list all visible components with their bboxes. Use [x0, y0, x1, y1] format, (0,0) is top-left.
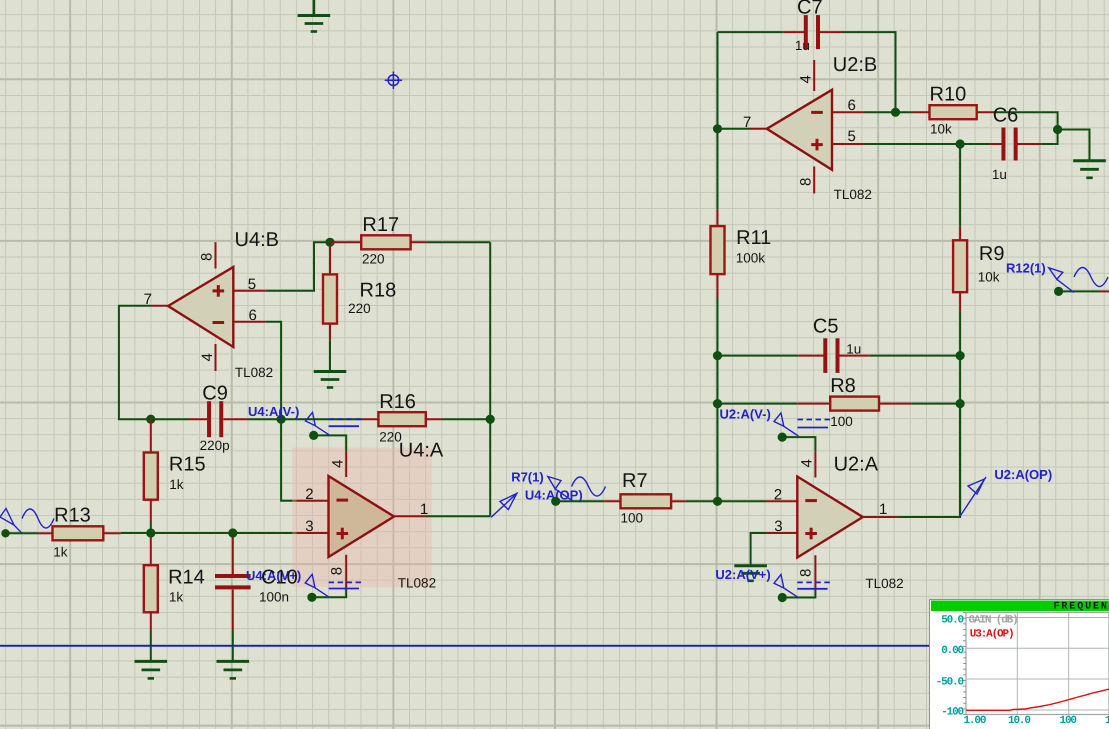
- label R17: [362, 214, 399, 236]
- op-amp U4:A pin3 stub: [296, 532, 328, 534]
- label R10: [930, 84, 967, 106]
- svg-text:FREQUENCY RESPONSE: FREQUENCY RESPONSE: [1054, 602, 1109, 613]
- node U2:A V- wire: [778, 433, 816, 452]
- pin number 3 (U2:A): [774, 518, 782, 535]
- wire U4:B pin7 output to C9 row: [119, 306, 189, 419]
- svg-text:C5: C5: [813, 316, 839, 338]
- op-amp U4:A pin2 stub: [296, 500, 328, 502]
- node U4:A V+ wire: [307, 588, 346, 602]
- svg-text:U3:A(OP): U3:A(OP): [970, 629, 1014, 641]
- probe arrow U2:A(OP): [960, 477, 986, 517]
- junction node R14/R15: [146, 528, 155, 537]
- label TL082 (U4:A): [398, 576, 436, 591]
- svg-text:8: 8: [798, 178, 815, 186]
- svg-text:C10: C10: [261, 567, 298, 589]
- net label R12(1): [1006, 261, 1046, 276]
- svg-text:U4:B: U4:B: [235, 229, 279, 251]
- pin number 1 (U2:A): [879, 501, 887, 518]
- op-amp U2:B pin8 stub: [813, 167, 815, 194]
- ground (C6): [1073, 161, 1106, 178]
- svg-text:TL082: TL082: [865, 576, 903, 591]
- value 10k (R9): [978, 269, 1000, 284]
- label R16: [379, 391, 416, 413]
- pin number 3 (U4:A): [305, 518, 313, 535]
- wire U2:B pin5 to C6: [865, 143, 990, 145]
- op-amp U4:B pin5 stub: [233, 290, 265, 292]
- svg-text:R13: R13: [54, 505, 91, 527]
- value 1k (R15): [169, 477, 184, 492]
- label TL082 (U2:A): [865, 576, 903, 591]
- value 1k (R13): [53, 545, 68, 560]
- svg-text:R7: R7: [622, 470, 648, 492]
- svg-text:2: 2: [774, 487, 782, 504]
- resistor R16: [362, 412, 442, 426]
- sheet border (blue line): [0, 645, 930, 647]
- label R15: [169, 454, 206, 476]
- svg-text:50.0: 50.0: [941, 615, 963, 627]
- wire U2:B pin7 rail: [717, 32, 719, 210]
- resistor R8: [718, 397, 961, 411]
- svg-text:1.00: 1.00: [964, 715, 986, 727]
- junction node U2:B pin7: [713, 124, 722, 133]
- probe arrow U4:A(OP): [491, 493, 517, 517]
- power pin dash (U2:A V-): [798, 420, 831, 428]
- svg-text:5: 5: [248, 276, 256, 293]
- value 100n (C10): [259, 590, 289, 605]
- generator sine R12(1): [1074, 268, 1108, 287]
- junction node C10: [228, 528, 237, 537]
- op-amp U2:B pin5 stub: [832, 143, 865, 145]
- junction node R9 top: [956, 139, 965, 148]
- pin number 8 (U2:A): [798, 569, 815, 577]
- op-amp U2:A pin4 stub: [814, 452, 816, 478]
- value 100 (R8): [830, 414, 853, 429]
- label R11: [736, 227, 771, 249]
- svg-text:8: 8: [798, 569, 815, 577]
- wire C6 node down: [1041, 130, 1057, 145]
- op-amp U4:A pin8 stub: [345, 555, 347, 588]
- label U4:A: [399, 440, 444, 462]
- label C5: [813, 316, 839, 338]
- junction node R17/R18: [325, 238, 334, 247]
- op-amp U2:B: [767, 90, 832, 170]
- op-amp U4:B pin4 stub: [215, 344, 217, 371]
- resistor R14: [144, 537, 158, 661]
- junction node R8 right: [956, 399, 965, 408]
- value 100k (R11): [736, 251, 766, 266]
- op-amp U4:B minus mark: [213, 321, 225, 324]
- svg-text:7: 7: [743, 114, 751, 131]
- op-amp U4:A pin4 stub: [345, 452, 347, 477]
- op-amp U2:A pin3 stub: [766, 532, 797, 534]
- junction node C9/pin2 rail: [277, 415, 286, 424]
- svg-text:220p: 220p: [200, 438, 230, 453]
- value 1u (C7): [795, 38, 810, 53]
- svg-text:C9: C9: [202, 382, 228, 404]
- frequency response chart window: [930, 600, 1109, 729]
- op-amp U4:B pin7 stub: [151, 305, 169, 307]
- net label U4:A(V-): [248, 404, 299, 419]
- net label U2:A(V-): [720, 407, 771, 422]
- svg-text:3: 3: [305, 518, 313, 535]
- svg-text:R10: R10: [930, 84, 967, 106]
- capacitor C9: [189, 401, 249, 437]
- op-amp U2:B pin7 stub: [750, 128, 768, 130]
- net pointer arrow (U2:A V-): [774, 413, 798, 436]
- net label R7(1): [511, 470, 544, 485]
- svg-text:R11: R11: [736, 227, 771, 249]
- wire U2:B pin6 to R10: [865, 111, 914, 113]
- label R9: [979, 243, 1005, 265]
- pin number 6 (U4:B): [249, 307, 257, 324]
- junction node R15 top: [146, 415, 155, 424]
- net label U2:A(OP): [994, 467, 1052, 482]
- net pointer arrow (U4:A V-): [306, 412, 331, 435]
- pin number 4 (U4:B): [199, 353, 216, 361]
- wire U4:A output: [425, 515, 490, 517]
- svg-text:10.0: 10.0: [1008, 715, 1030, 727]
- junction node U2 input rail: [713, 497, 722, 506]
- op-amp U2:A plus mark: [805, 528, 817, 540]
- pin number 6 (U2:B): [848, 97, 856, 114]
- op-amp U2:A: [797, 477, 863, 558]
- op-amp U2:B plus mark: [811, 139, 823, 151]
- net pointer arrow (U2:A V+): [774, 575, 798, 598]
- svg-text:1u: 1u: [795, 38, 810, 53]
- junction node feedback rail/R16: [486, 415, 495, 424]
- generator arrow R12(1): [1049, 268, 1074, 293]
- pin number 8 (U4:B): [199, 253, 216, 261]
- junction node R7 left: [551, 497, 560, 506]
- op-amp U2:A pin2 stub: [766, 500, 797, 502]
- power pin dash (U4:A V-): [329, 419, 362, 426]
- pin number 2 (U4:A): [305, 486, 313, 503]
- ground (U2:A pin3): [734, 566, 767, 581]
- resistor R13: [38, 526, 121, 540]
- pin number 7 (U4:B): [144, 291, 152, 308]
- wire U2:B pin7 link: [718, 128, 751, 130]
- op-amp U4:B plus mark: [213, 285, 225, 297]
- svg-text:10k: 10k: [930, 121, 952, 136]
- wire to R12: [1059, 290, 1109, 292]
- wire R9 down to output rail: [959, 311, 961, 517]
- op-amp U4:B pin8 stub: [215, 242, 217, 268]
- pin number 7 (U2:B): [743, 114, 751, 131]
- net label U2:A(V+): [715, 567, 770, 582]
- junction node C5 right: [956, 351, 965, 360]
- svg-text:TL082: TL082: [398, 576, 436, 591]
- op-amp U4:A plus mark: [337, 528, 349, 540]
- svg-text:220: 220: [348, 301, 371, 316]
- pin number 2 (U2:A): [774, 487, 782, 504]
- svg-text:1: 1: [879, 501, 887, 518]
- wire feedback rail (vertical): [489, 242, 491, 516]
- net pointer arrow (U4:A V+): [305, 574, 329, 597]
- wire C9 to R16: [249, 418, 363, 420]
- svg-text:1k: 1k: [169, 590, 184, 605]
- svg-text:-50.0: -50.0: [936, 677, 964, 689]
- value 220p (C9): [200, 438, 230, 453]
- svg-text:1: 1: [420, 501, 428, 518]
- capacitor C7: [718, 15, 843, 49]
- svg-text:R7(1): R7(1): [511, 470, 544, 485]
- svg-text:1k: 1k: [53, 545, 68, 560]
- value 100 (R7): [621, 510, 644, 525]
- label C6: [993, 105, 1019, 127]
- svg-text:100n: 100n: [259, 590, 289, 605]
- svg-text:3: 3: [774, 518, 782, 535]
- wire U4:B pin6 down to U4:A pin2: [266, 322, 297, 501]
- wire C6 node to ground: [1058, 130, 1090, 161]
- node U2:A V+ wire: [778, 588, 816, 602]
- resistor R10: [913, 105, 993, 119]
- op-amp U2:B pin6 stub: [832, 111, 865, 113]
- op-amp U2:A minus mark: [805, 499, 817, 502]
- ground (C10): [217, 661, 250, 678]
- svg-text:220: 220: [362, 252, 385, 267]
- power pin dash (U2:A V+): [797, 582, 830, 588]
- op-amp U4:A pin1 stub: [394, 515, 426, 517]
- op-amp U4:A: [329, 476, 395, 557]
- op-amp U2:A pin1 stub: [862, 516, 897, 518]
- junction node R12 wire: [1054, 287, 1063, 296]
- net label U4:A(OP): [525, 488, 583, 503]
- svg-text:GAIN (dB): GAIN (dB): [969, 615, 1018, 627]
- svg-text:R18: R18: [360, 280, 397, 302]
- input terminal dot: [1, 529, 9, 537]
- svg-text:TL082: TL082: [834, 187, 872, 202]
- svg-text:0.00: 0.00: [941, 645, 963, 657]
- capacitor C6: [990, 128, 1042, 161]
- resistor R18: [323, 245, 337, 341]
- wire R13 to U4:A pin3: [121, 532, 297, 534]
- value 1u (C6): [992, 167, 1007, 182]
- label R14: [168, 567, 205, 589]
- svg-text:U2:A(V+): U2:A(V+): [715, 567, 770, 582]
- capacitor C10: [215, 537, 251, 661]
- svg-text:1k: 1k: [1105, 715, 1109, 727]
- svg-text:100: 100: [830, 414, 853, 429]
- selection highlight (U4:A): [292, 448, 432, 587]
- value 1k (R14): [169, 590, 184, 605]
- capacitor C5: [718, 338, 961, 373]
- label C7: [797, 0, 823, 19]
- input probe sine symbol: [22, 509, 54, 528]
- label R7: [622, 470, 648, 492]
- svg-text:8: 8: [329, 567, 346, 575]
- svg-text:6: 6: [848, 97, 856, 114]
- input probe arrow: [0, 509, 22, 533]
- resistor R7: [556, 494, 686, 508]
- ground (top): [298, 0, 331, 32]
- svg-text:8: 8: [199, 253, 216, 261]
- junction node C5 left: [713, 351, 722, 360]
- power pin dash (U4:A V+): [329, 582, 361, 588]
- value 220 (R17): [362, 252, 385, 267]
- value 1u (C5): [846, 342, 861, 357]
- svg-text:4: 4: [798, 75, 815, 83]
- svg-text:4: 4: [199, 353, 216, 361]
- value 220 (R16): [379, 430, 402, 445]
- wire R11 to C5 rail: [717, 298, 719, 501]
- svg-text:U4:A: U4:A: [399, 440, 444, 462]
- svg-text:R8: R8: [830, 375, 856, 397]
- pin number 4 (U2:B): [798, 75, 815, 83]
- svg-text:R9: R9: [979, 243, 1005, 265]
- op-amp U4:B: [168, 267, 233, 347]
- svg-text:U2:A(OP): U2:A(OP): [994, 467, 1052, 482]
- svg-text:R15: R15: [169, 454, 206, 476]
- resistor R11: [711, 210, 725, 298]
- label R8: [830, 375, 856, 397]
- svg-text:6: 6: [249, 307, 257, 324]
- svg-text:7: 7: [144, 291, 152, 308]
- svg-text:R17: R17: [362, 214, 399, 236]
- svg-text:5: 5: [848, 128, 856, 145]
- svg-text:U2:A(V-): U2:A(V-): [720, 407, 771, 422]
- label U4:B: [235, 229, 279, 251]
- svg-text:U2:B: U2:B: [833, 54, 877, 76]
- svg-text:100: 100: [621, 510, 644, 525]
- svg-text:1k: 1k: [169, 477, 184, 492]
- svg-text:-100: -100: [941, 706, 963, 718]
- svg-text:1u: 1u: [846, 342, 861, 357]
- junction node R8 left: [713, 399, 722, 408]
- junction node U2:B pin6: [891, 108, 900, 117]
- pin number 4 (U4:A): [330, 460, 347, 468]
- wire C7 to U2:B pin6: [843, 32, 896, 112]
- svg-text:10k: 10k: [978, 269, 1000, 284]
- resistor R17: [330, 235, 427, 249]
- op-amp U4:A minus mark: [337, 499, 349, 502]
- label U2:B: [833, 54, 877, 76]
- wire U2:A pin3 to ground: [751, 533, 766, 566]
- label U2:A: [834, 453, 879, 475]
- label R13: [54, 505, 91, 527]
- ground (R18): [314, 372, 347, 388]
- label TL082 (U2:B): [834, 187, 872, 202]
- svg-text:C6: C6: [993, 105, 1019, 127]
- pin number 5 (U2:B): [848, 128, 856, 145]
- label R18: [360, 280, 397, 302]
- svg-text:R16: R16: [379, 391, 416, 413]
- wire U2:A output to R9 rail: [897, 404, 960, 517]
- pin number 5 (U4:B): [248, 276, 256, 293]
- ground (R14): [135, 661, 168, 678]
- pin number 8 (U4:A): [329, 567, 346, 575]
- svg-text:U2:A: U2:A: [834, 453, 879, 475]
- op-amp U4:B pin6 stub: [233, 321, 265, 323]
- wire R18 to ground: [329, 341, 331, 372]
- op-amp U2:B pin4 stub: [813, 60, 815, 91]
- junction node C6/ground: [1053, 125, 1062, 134]
- label C9: [202, 382, 228, 404]
- svg-text:4: 4: [799, 459, 816, 467]
- op-amp U2:A pin8 stub: [814, 555, 816, 588]
- wire R10 to C6 node: [993, 112, 1057, 129]
- op-amp U2:B minus mark: [811, 111, 823, 114]
- resistor R15: [144, 419, 158, 533]
- svg-text:100: 100: [1060, 715, 1077, 727]
- pin number 4 (U2:A): [799, 459, 816, 467]
- net label U4:A(V+): [246, 568, 301, 583]
- generator arrow R7(1): [548, 477, 574, 502]
- value 220 (R18): [348, 301, 371, 316]
- svg-text:4: 4: [330, 460, 347, 468]
- svg-text:2: 2: [305, 486, 313, 503]
- origin marker (blue crosshair): [385, 72, 402, 89]
- value 10k (R10): [930, 121, 952, 136]
- wire R7 to U2:A pin2: [686, 500, 766, 502]
- generator sine R7(1): [572, 477, 606, 496]
- label C10: [261, 567, 298, 589]
- svg-text:1u: 1u: [992, 167, 1007, 182]
- svg-text:C7: C7: [797, 0, 823, 19]
- svg-text:R14: R14: [168, 567, 205, 589]
- svg-text:U4:A(V-): U4:A(V-): [248, 404, 299, 419]
- svg-text:TL082: TL082: [235, 365, 273, 380]
- wire input to R13: [6, 532, 39, 534]
- svg-text:R12(1): R12(1): [1006, 261, 1046, 276]
- wire U4:B pin5 to R17/R18 node: [266, 242, 327, 290]
- pin number 8 (U2:B): [798, 178, 815, 186]
- label TL082 (U4): [235, 365, 273, 380]
- resistor R9: [953, 144, 967, 311]
- wire R16 to feedback rail: [442, 418, 491, 420]
- pin number 1 (U4:A): [420, 501, 428, 518]
- node U4:A V- wire: [309, 431, 346, 452]
- wire R17 right to feedback rail: [427, 241, 490, 243]
- svg-text:100k: 100k: [736, 251, 766, 266]
